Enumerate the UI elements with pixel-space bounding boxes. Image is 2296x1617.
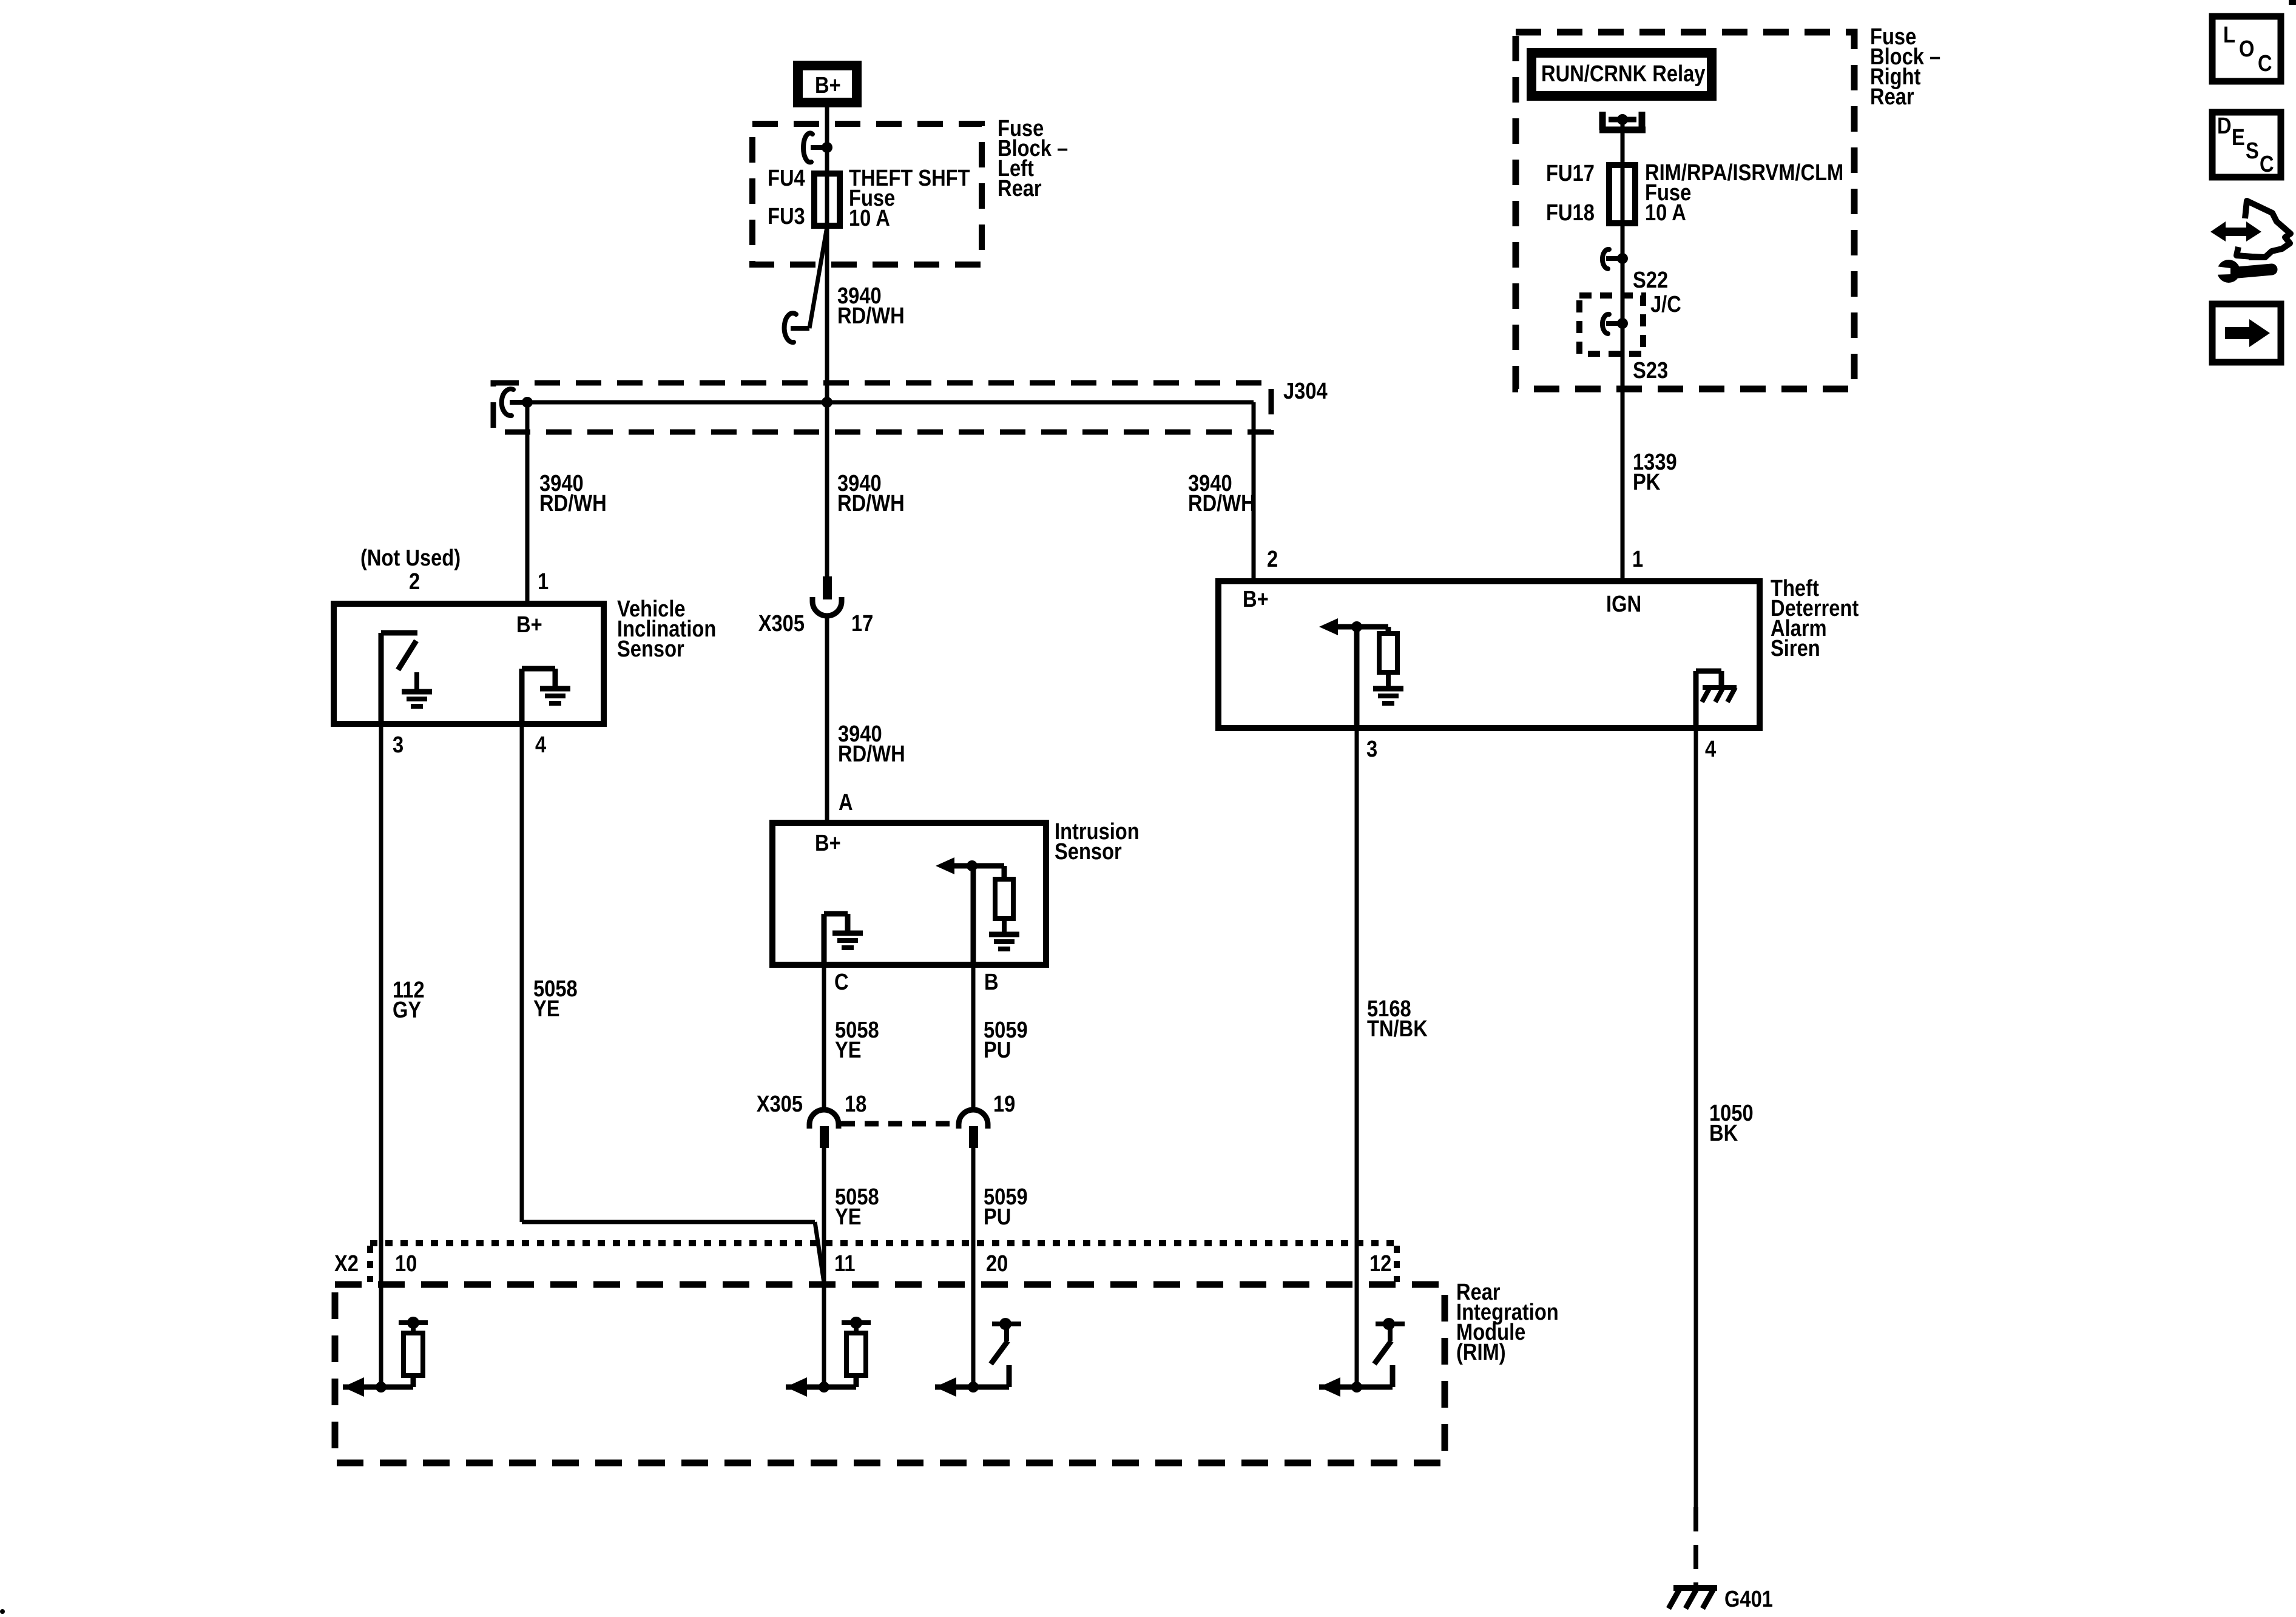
wire label 5059 PU (pin B) <box>984 1017 1028 1063</box>
pin A label <box>839 789 853 815</box>
label J/C <box>1650 291 1681 317</box>
wire label 3940 RD/WH (fuse output) <box>837 283 905 329</box>
label Rear Integration Module (RIM) <box>1456 1279 1559 1365</box>
wire relay to fuse FU17 <box>1621 120 1625 223</box>
pin 2 label VIS <box>409 569 420 595</box>
wire label 112 GY <box>393 977 425 1023</box>
connector X305 pin 18 <box>809 1110 839 1148</box>
svg-text:19: 19 <box>993 1091 1015 1117</box>
wire fuse to S22 splice <box>1621 223 1625 323</box>
junction dot J304 center branch <box>822 397 832 408</box>
junction dot S22 <box>1617 253 1628 264</box>
wire J304 down to X305-17 <box>825 402 829 578</box>
label G401 <box>1724 1586 1773 1612</box>
svg-text:B+: B+ <box>815 830 841 856</box>
svg-text:B+: B+ <box>815 72 841 98</box>
svg-text:J304: J304 <box>1283 378 1328 404</box>
svg-text:C: C <box>2260 151 2274 177</box>
svg-text:FU3: FU3 <box>768 203 805 229</box>
label 17 <box>851 610 873 636</box>
wire label 5058 YE (left) <box>533 976 578 1022</box>
icon DESC box <box>2212 112 2281 177</box>
svg-text:S23: S23 <box>1633 357 1668 383</box>
terminal hook J304 left <box>502 389 527 416</box>
svg-text:18: 18 <box>845 1091 866 1117</box>
svg-text:D: D <box>2217 113 2232 139</box>
pin 12 internal: switch to driver <box>1357 1318 1405 1387</box>
pin 4 label VIS below <box>535 732 546 758</box>
label X2 <box>334 1251 359 1277</box>
svg-text:B: B <box>984 969 999 995</box>
resistor inside siren <box>1379 627 1397 687</box>
junction dot siren output <box>1351 621 1362 632</box>
wire dashed to G401 <box>1693 1507 1698 1586</box>
wire label 3940 RD/WH (right branch) <box>1188 470 1255 516</box>
svg-text:X2: X2 <box>334 1251 359 1277</box>
B+ label (top box) <box>815 72 841 98</box>
IGN label inside siren <box>1606 591 1641 617</box>
svg-text:2: 2 <box>409 569 420 595</box>
rear integration module dashed box <box>335 1284 1445 1463</box>
label Intrusion Sensor <box>1055 819 1140 865</box>
fuse block left rear dashed box <box>752 124 982 265</box>
svg-text:2: 2 <box>1267 546 1278 572</box>
junction dot relay terminal <box>1617 114 1628 125</box>
wire label 1339 PK <box>1633 449 1677 495</box>
relay RUN/CRNK bold box <box>1531 53 1712 96</box>
ground inside VIS right <box>540 689 570 703</box>
wire label 5058 YE (pin C) <box>835 1017 879 1063</box>
B+ label inside siren <box>1243 586 1269 612</box>
svg-text:C: C <box>2258 50 2272 76</box>
svg-text:FU17: FU17 <box>1546 160 1595 186</box>
page corner mark top right <box>2289 0 2296 5</box>
svg-text:X305: X305 <box>758 610 805 636</box>
pin 12 internal: junction and arrow <box>1319 1377 1357 1397</box>
theft deterrent alarm siren box <box>1218 581 1760 728</box>
label X305 (18) <box>757 1091 803 1117</box>
pin 12 label <box>1369 1251 1391 1277</box>
svg-text:112GY: 112GY <box>393 977 425 1023</box>
pin B label <box>984 969 999 995</box>
wire X305-19 to RIM pin 20 <box>971 1147 976 1387</box>
wire label 3940 RD/WH (to pin A) <box>838 721 905 767</box>
svg-text:E: E <box>2232 124 2245 150</box>
in-line connector hook below fuse (slant) <box>785 227 827 342</box>
svg-text:G401: G401 <box>1724 1586 1773 1612</box>
connector X305 pin 19 <box>959 1110 988 1148</box>
power B+ terminal box <box>798 66 857 103</box>
pin C label <box>834 969 849 995</box>
svg-text:1: 1 <box>538 569 549 595</box>
svg-text:3: 3 <box>393 732 403 758</box>
pin 4 label siren <box>1705 736 1716 762</box>
wire J304 right branch down <box>1252 402 1256 581</box>
svg-text:C: C <box>834 969 849 995</box>
icon LOC box <box>2212 16 2281 81</box>
svg-text:A: A <box>839 789 853 815</box>
wire 112 GY pin3 down to RIM pin 10 <box>379 724 383 1387</box>
wire J304 bus <box>527 400 1254 405</box>
pin 20 label <box>986 1251 1008 1277</box>
svg-text:FU4: FU4 <box>768 165 805 191</box>
label S22 <box>1633 267 1668 293</box>
pin 11 label <box>834 1251 856 1277</box>
label Theft Deterrent Alarm Siren <box>1771 575 1859 661</box>
J304 dashed box <box>493 383 1271 432</box>
connector X305 pin 17 <box>812 576 842 616</box>
chassis ground inside siren <box>1702 687 1737 702</box>
label FU4 <box>768 165 805 191</box>
relay output terminal cup <box>1599 112 1646 130</box>
svg-text:4: 4 <box>1705 736 1716 762</box>
svg-text:17: 17 <box>851 610 873 636</box>
switch inside VIS (pin 3) <box>381 633 417 724</box>
svg-text:J/C: J/C <box>1650 291 1681 317</box>
svg-text:O: O <box>2239 36 2254 62</box>
output driver arrow inside siren <box>1319 618 1388 635</box>
fuse FU4/FU3 THEFT SHFT 10A <box>814 174 840 226</box>
splice S23 hook <box>1602 314 1622 334</box>
pin 4 internal hook siren <box>1696 671 1721 728</box>
svg-text:X305: X305 <box>757 1091 803 1117</box>
B+ label inside VIS <box>516 612 542 638</box>
page mark bottom left <box>0 1609 5 1614</box>
wire pin B down inside to box edge <box>971 866 976 965</box>
pin 1 label VIS <box>538 569 549 595</box>
svg-text:(Not Used): (Not Used) <box>360 545 461 571</box>
ground inside VIS left <box>402 672 432 706</box>
svg-text:FU18: FU18 <box>1546 200 1595 226</box>
svg-text:3: 3 <box>1366 736 1377 762</box>
dashed connector tie 18-19 <box>841 1121 957 1127</box>
svg-text:L: L <box>2223 22 2235 48</box>
wire label 3940 RD/WH (left branch) <box>539 470 607 516</box>
label Fuse Block - Right Rear <box>1870 24 1940 110</box>
label 18 <box>845 1091 866 1117</box>
wire label 5059 PU (to pin 20) <box>984 1184 1028 1230</box>
wire label 1050 BK <box>1709 1100 1754 1146</box>
fuse block right rear dashed box <box>1516 32 1854 389</box>
pin 10 internal: junction and arrow <box>343 1377 381 1397</box>
B+ label inside intrusion sensor <box>815 830 841 856</box>
pin 10 label <box>395 1251 417 1277</box>
wire siren pin 3 internal <box>1354 627 1360 728</box>
pin 20 internal: junction and arrow <box>935 1377 973 1397</box>
wire J304 to VIS pin 1 <box>525 402 530 604</box>
wire pin C to X305-18 <box>822 965 826 1108</box>
svg-text:RUN/CRNK Relay: RUN/CRNK Relay <box>1541 61 1706 87</box>
intrusion sensor box <box>772 823 1046 965</box>
junction dot intrusion output <box>967 860 977 871</box>
svg-text:B+: B+ <box>516 612 542 638</box>
label X305 (17) <box>758 610 805 636</box>
pin 1 label siren <box>1632 546 1643 572</box>
wire 5168 TN/BK siren pin3 to RIM pin 12 <box>1355 728 1359 1387</box>
label RIM/RPA/ISRVM/CLM Fuse 10 A <box>1645 160 1843 226</box>
resistor inside intrusion sensor <box>995 866 1013 933</box>
pin 4 internal hook VIS <box>522 669 555 724</box>
wire pin B to X305-19 <box>971 965 976 1108</box>
wire label 5168 TN/BK <box>1367 996 1428 1042</box>
junction at fuse block input <box>822 142 832 153</box>
wire fuse output down to J304 <box>825 226 829 402</box>
pin 10 internal: pull-up resistor with driver stub <box>381 1317 428 1387</box>
label 19 <box>993 1091 1015 1117</box>
ground G401 chassis symbol <box>1669 1588 1717 1609</box>
pin 3 label siren <box>1366 736 1377 762</box>
junction dot S23 <box>1617 318 1628 329</box>
svg-text:11: 11 <box>834 1251 856 1277</box>
wire B+ box to fuse FU4 <box>825 107 829 226</box>
label FU17 <box>1546 160 1595 186</box>
wire X305-17 to Intrusion pin A <box>825 616 829 823</box>
terminal hook at fuse block input <box>803 133 827 162</box>
wire X305-18 to RIM pin 11 <box>822 1147 826 1387</box>
junction connector J/C dashed box <box>1579 295 1643 354</box>
label (Not Used) <box>360 545 461 571</box>
pin 11 internal: junction and arrow <box>786 1377 824 1397</box>
wire 1050 BK siren pin 4 down <box>1694 728 1698 1507</box>
connector X2 dotted boundary <box>370 1243 1397 1282</box>
label RUN/CRNK Relay <box>1541 61 1706 87</box>
pin 11 internal: pull-up resistor with driver stub <box>824 1317 871 1387</box>
ground inside intrusion sensor right <box>989 934 1019 949</box>
label Fuse Block - Left Rear <box>998 115 1068 201</box>
svg-text:S22: S22 <box>1633 267 1668 293</box>
pin 3 label VIS below <box>393 732 403 758</box>
vehicle inclination sensor box <box>334 604 604 724</box>
svg-text:1: 1 <box>1632 546 1643 572</box>
svg-text:20: 20 <box>986 1251 1008 1277</box>
junction dot J304 left branch <box>522 397 533 408</box>
label S23 <box>1633 357 1668 383</box>
label FU3 <box>768 203 805 229</box>
label J304 <box>1283 378 1328 404</box>
ground inside intrusion sensor left <box>832 933 863 948</box>
svg-text:10: 10 <box>395 1251 417 1277</box>
wire 5058 YE pin4 down then right <box>522 724 824 1283</box>
wire S23 down to siren pin 1 <box>1621 323 1625 581</box>
label FU18 <box>1546 200 1595 226</box>
label Vehicle Inclination Sensor <box>617 596 716 662</box>
svg-text:12: 12 <box>1369 1251 1391 1277</box>
pin 20 internal: switch to driver <box>973 1318 1021 1387</box>
svg-text:B+: B+ <box>1243 586 1269 612</box>
output driver arrow inside intrusion sensor <box>936 857 1004 874</box>
pin C internal hook <box>824 914 848 965</box>
fuse FU17/FU18 RIM/RPA/ISRVM/CLM 10A <box>1609 165 1635 223</box>
svg-text:IGN: IGN <box>1606 591 1641 617</box>
splice S22 hook <box>1602 249 1622 269</box>
icon next-page arrow box <box>2212 304 2281 362</box>
svg-text:S: S <box>2246 138 2259 164</box>
pin 2 label siren <box>1267 546 1278 572</box>
wire label 3940 RD/WH (center branch) <box>837 470 905 516</box>
label THEFT SHFT Fuse 10 A <box>849 165 970 231</box>
icon double-arrow and wrench <box>2210 201 2291 283</box>
svg-text:4: 4 <box>535 732 546 758</box>
ground inside siren <box>1373 689 1403 703</box>
wire label 5058 YE (to pin 11) <box>835 1184 879 1230</box>
